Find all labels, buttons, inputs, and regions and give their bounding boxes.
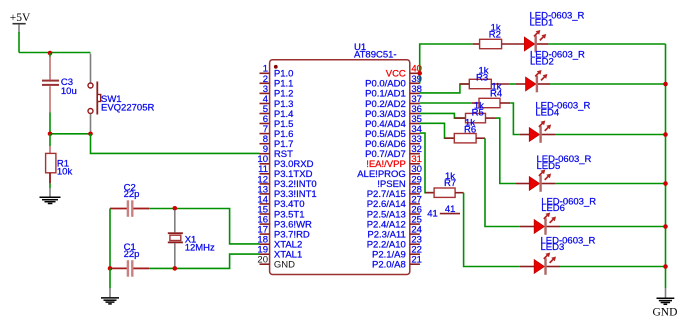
LED6 (534, 213, 560, 235)
net label 41 (port) (440, 204, 460, 215)
pin 22 (P2.1/A9) (372, 245, 422, 261)
pin 35 (P0.4/AD4) (365, 114, 422, 130)
resistor R3 (469, 79, 491, 88)
pin 1 (P1.0) (260, 64, 294, 80)
pin 8 (P1.7) (260, 134, 294, 150)
IC U1 AT89C51 body (270, 60, 410, 275)
pin 15 (P3.5T1) (257, 204, 304, 220)
label LED3 (541, 235, 596, 253)
wire P0.2 to R4 (420, 102, 472, 104)
node junction C3/R1 (48, 132, 53, 137)
resistor R4 lead (472, 102, 479, 104)
wire LED2 to bus (550, 83, 666, 85)
pin 38 (P0.1/AD1) (365, 84, 422, 100)
wire C2 to XTAL2 (149, 209, 259, 244)
pin 9 (RST) (260, 144, 294, 160)
label SW1 (101, 94, 154, 114)
svg-text:22p: 22p (124, 189, 140, 200)
svg-text:GND: GND (653, 307, 678, 319)
resistor R7 lead (425, 192, 434, 194)
pin 18 (XTAL2) (257, 235, 302, 251)
node junction bus y134.5 (663, 132, 668, 137)
resistor R1 (46, 134, 56, 188)
svg-text:20: 20 (257, 255, 268, 266)
wire R2 to LED1 (502, 43, 525, 45)
wire LED5 to bus (555, 183, 665, 185)
svg-text:LED1: LED1 (530, 17, 554, 28)
pin 23 (P2.2/A10) (367, 235, 422, 251)
svg-text:LED6: LED6 (541, 203, 565, 214)
pin 28 (P2.7/A15) (367, 184, 422, 200)
pin 17 (P3.7!RD) (257, 225, 310, 241)
label LED6 (541, 197, 596, 215)
resistor R3 lead (460, 83, 469, 85)
wire left column C2-C1 (109, 209, 111, 269)
pin 13 (P3.3!INT1) (257, 184, 316, 200)
ground below R1 (40, 188, 61, 204)
svg-text:R4: R4 (490, 88, 502, 99)
wire R6 to LED6 (476, 137, 485, 139)
svg-text:10u: 10u (61, 86, 77, 97)
svg-text:21: 21 (411, 255, 422, 266)
wire LED6 to bus (560, 226, 666, 228)
resistor R4 (479, 98, 500, 107)
pin 31 (!EA!/VPP) (366, 154, 422, 170)
ground GND power symbol (653, 288, 678, 319)
label R6 value (464, 117, 476, 135)
svg-text:41: 41 (427, 208, 438, 219)
svg-text:+5V: +5V (10, 12, 31, 24)
wire C1 to XTAL1 (149, 254, 259, 268)
pin 16 (P3.6!WR) (257, 215, 312, 231)
resistor R7 (434, 188, 455, 197)
node junction X1 bottom (173, 266, 178, 271)
wire R4 to LED4 (500, 102, 510, 104)
node junction pin 40 (417, 71, 422, 76)
node junction C1 left (108, 266, 113, 271)
wire R5 to LED5 (486, 117, 496, 119)
node junction bus y226.5 (663, 224, 668, 229)
pin 26 (P2.5/A13) (367, 204, 422, 220)
pin 29 (!PSEN) (377, 174, 422, 190)
pin 21 (P2.0/A8) (372, 255, 422, 271)
label R4 value (490, 81, 502, 99)
capacitor C2 (110, 200, 149, 217)
wire LED1 to bus (548, 43, 665, 45)
pin 36 (P0.3/AD3) (365, 104, 422, 120)
wire to RST pin (91, 134, 260, 154)
pin 27 (P2.6/A14) (367, 194, 422, 210)
wire LED4 to bus (555, 134, 666, 136)
resistor R2 lead (473, 43, 480, 45)
svg-text:22p: 22p (124, 249, 140, 260)
pin 10 (P3.0RXD) (257, 154, 313, 170)
LED4 (529, 121, 555, 143)
node junction bus y183.5 (663, 181, 668, 186)
resistor R6 lead (445, 137, 455, 139)
label U1 designator (354, 42, 397, 61)
wire P0.5 to R7 (420, 133, 434, 193)
pin 3 (P1.2) (260, 84, 294, 100)
resistor R6 (454, 134, 476, 143)
svg-text:R7: R7 (444, 178, 456, 189)
label R1 value (57, 159, 73, 178)
pin 37 (P0.2/AD2) (365, 94, 422, 110)
wire P0.3 to R5 (420, 113, 466, 118)
node junction bus y266.5 (663, 264, 668, 269)
wire R7 to LED3 (455, 192, 464, 194)
pin 5 (P1.4) (260, 104, 294, 120)
pin 34 (P0.5/AD5) (365, 124, 422, 140)
LED5 (529, 170, 555, 192)
svg-text:R3: R3 (476, 72, 488, 83)
label LED1 (530, 10, 585, 28)
pin 1 marker dot (274, 65, 278, 69)
label LED4 (535, 101, 590, 119)
wire down to ground (109, 268, 111, 288)
svg-text:10k: 10k (57, 167, 73, 178)
LED1 (524, 30, 548, 52)
label LED2 (530, 50, 585, 68)
wire reset node horizontal (50, 133, 91, 135)
wire P0.4 to R6 (420, 123, 455, 138)
wire +5V down (18, 32, 20, 53)
pin 30 (ALE!PROG) (357, 164, 422, 180)
LED2 (526, 70, 550, 92)
svg-text:LED2: LED2 (530, 57, 554, 68)
pin 40 (VCC) (386, 64, 422, 80)
pin 39 (P0.0/AD0) (365, 74, 422, 90)
wire LED3 to bus (560, 266, 666, 268)
pin 6 (P1.5) (260, 114, 294, 130)
switch SW1 EVQ22705R (88, 54, 101, 132)
wire P0.1 to R3 (420, 84, 470, 93)
label LED5 (537, 154, 592, 172)
wire right bus vertical (665, 44, 667, 288)
label R7 value (444, 171, 456, 189)
svg-text:GND: GND (274, 260, 295, 271)
wire VCC/P0.0 vertical (420, 44, 473, 84)
svg-text:EVQ22705R: EVQ22705R (101, 103, 154, 114)
pin 33 (P0.6/AD6) (365, 134, 422, 150)
label R5 value (472, 100, 485, 118)
label C3 value (61, 77, 77, 97)
label X1 value (185, 235, 215, 254)
pin 32 (P0.7/AD7) (365, 144, 422, 160)
ground below C1 (101, 288, 119, 304)
node junction bus y84 (663, 82, 668, 87)
resistor R2 (480, 39, 502, 48)
svg-text:R2: R2 (489, 29, 501, 40)
capacitor C3 (42, 53, 59, 134)
node junction X1 top (173, 206, 178, 211)
pin 19 (XTAL1) (257, 245, 302, 261)
pin 14 (P3.4T0) (257, 194, 304, 210)
resistor R5 lead (454, 117, 465, 119)
pin 24 (P2.3/A11) (367, 225, 422, 241)
crystal X1 (168, 210, 183, 268)
pin 7 (P1.6) (260, 124, 294, 140)
pin 4 (P1.3) (260, 94, 294, 110)
svg-text:LED4: LED4 (535, 108, 559, 119)
LED3 (534, 253, 560, 275)
pin 12 (P3.2!INT0) (257, 174, 316, 190)
node junction at C3 top (48, 51, 53, 56)
label R3 value (476, 65, 489, 83)
pin 20 (GND) (257, 255, 295, 271)
svg-text:LED5: LED5 (537, 161, 561, 172)
pin 11 (P3.1TXD) (258, 164, 312, 180)
svg-text:12MHz: 12MHz (185, 242, 215, 253)
node junction SW1 bottom (88, 132, 93, 137)
wire top horizontal to SW1 (19, 52, 91, 54)
resistor R5 (466, 113, 486, 122)
label C2 value (124, 182, 140, 200)
svg-text:AT89C51-: AT89C51- (354, 49, 397, 60)
svg-text:P2.0/A8: P2.0/A8 (372, 260, 406, 271)
label C1 value (124, 242, 140, 260)
pin 25 (P2.4/A12) (367, 215, 422, 231)
wire R3 to LED2 (491, 83, 509, 85)
pin 2 (P1.1) (260, 74, 294, 90)
label R2 value (489, 22, 501, 40)
svg-text:LED3: LED3 (541, 242, 565, 253)
power +5V symbol (10, 12, 31, 32)
svg-text:R6: R6 (464, 124, 476, 135)
capacitor C1 (110, 260, 149, 277)
